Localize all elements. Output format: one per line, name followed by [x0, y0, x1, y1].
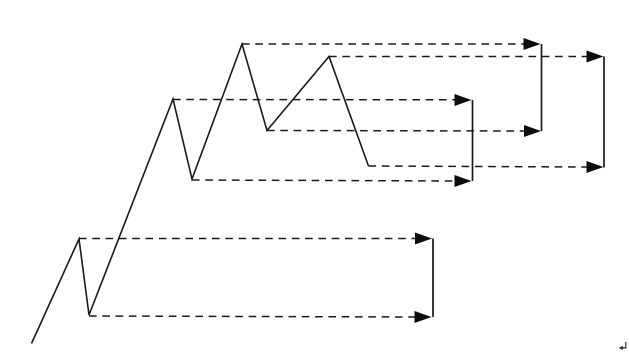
arrowhead of V4 level: [587, 161, 604, 173]
zigzag price line: [32, 44, 369, 344]
arrowhead of P2 level: [524, 38, 541, 50]
dashed level line from peak P2 (y=44): [242, 43, 525, 45]
dashed level line from valley V3 (y=130.5): [267, 130, 525, 133]
paragraph return mark: [621, 342, 626, 348]
vertical connector VL2 (P3 to V4 levels): [603, 57, 605, 168]
dashed level line from peak P1 (y=99.5): [173, 99, 455, 101]
arrowhead of P3 level: [587, 51, 604, 63]
dashed level line from peak P0 (y=238.5): [79, 238, 416, 240]
arrowhead of V3 level: [524, 125, 541, 137]
dashed level line from valley V1 (y=316.5): [89, 316, 415, 317]
arrowhead of P0 level: [415, 233, 432, 245]
vertical connector VL3 (P1 to V2 levels): [472, 100, 474, 181]
dashed level line from valley V4 (y=166.5): [369, 166, 588, 167]
dashed level line from peak P3 (y=56.5): [329, 56, 587, 58]
arrowhead of V2 level: [455, 175, 472, 187]
vertical connector VL4 (P0 to V1 levels): [432, 239, 434, 318]
dashed level line from valley V2 (y=180.5): [192, 180, 455, 181]
vertical connector VL1 (P2 to V3 levels): [541, 44, 543, 131]
arrowhead of V1 level: [415, 311, 432, 323]
arrowhead of P1 level: [455, 94, 472, 106]
